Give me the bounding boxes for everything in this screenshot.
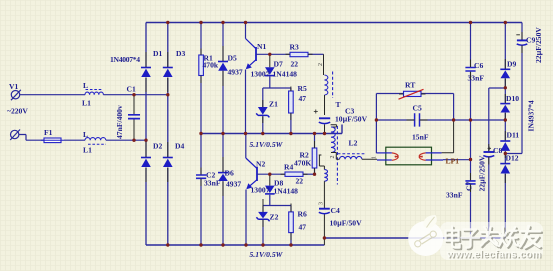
svg-text:4937: 4937 (226, 180, 241, 189)
junction top rail x=245.5 (244, 21, 247, 24)
junction mid rail x=245.5 (244, 132, 247, 135)
junction D11/D12 C9 tap (504, 152, 507, 155)
junction lamp return at C6 line (469, 158, 472, 161)
wire lamp lower-right to C6 line (443, 159, 471, 161)
junction AC bottom C1 tap (132, 139, 135, 142)
svg-text:D10: D10 (506, 94, 519, 103)
core of T (upper dashes) (332, 72, 334, 99)
wire R1 leg x=201 (R1 + C2 string) (200, 23, 202, 246)
junction N2 base / D8 (268, 173, 271, 176)
svg-text:13007: 13007 (251, 186, 270, 195)
svg-text:15nF: 15nF (412, 133, 429, 142)
svg-text:1N4148: 1N4148 (274, 187, 299, 196)
svg-text:L: L (83, 81, 88, 90)
svg-text:5.1V/0.5W: 5.1V/0.5W (250, 250, 284, 259)
wire L1a to bridge (103, 94, 167, 96)
wire bridge right leg x=167.8 (167, 23, 169, 246)
svg-text:2: 2 (318, 63, 324, 66)
junction mid rail R2 (313, 132, 316, 135)
wire bridge left leg x=146 (145, 23, 147, 246)
svg-text:F1: F1 (44, 128, 53, 137)
svg-text:L1: L1 (82, 99, 91, 108)
svg-text:D4: D4 (175, 142, 184, 151)
wire winding A to C3 (324, 95, 326, 115)
svg-text:C6: C6 (474, 61, 483, 70)
wire D9-D12 leg x=505.3 (504, 23, 506, 239)
svg-text:RT: RT (405, 81, 415, 90)
junction bottom rail Z2 (261, 243, 264, 246)
junction bottom rail x=223 (221, 243, 224, 246)
resistor R4 (285, 172, 303, 176)
terminal (AC neutral) (11, 130, 19, 138)
wire C8 leg x=488.8 (488, 88, 490, 238)
watermark logo circle (408, 221, 443, 256)
junction top rail x=167.8 (166, 21, 169, 24)
svg-text:C5: C5 (413, 104, 422, 113)
component pin leads (black overlay) (146, 32, 522, 240)
watermark logo node circles (415, 241, 421, 247)
svg-text:Z2: Z2 (270, 213, 279, 222)
svg-text:10μF/50V: 10μF/50V (335, 115, 368, 124)
svg-text:N2: N2 (256, 160, 265, 169)
svg-text:4937: 4937 (228, 68, 243, 77)
wire R4 to R2 junction (303, 173, 315, 175)
svg-text:C8: C8 (493, 146, 502, 155)
wire L1b to bridge (106, 139, 146, 141)
fuse F1 (44, 138, 61, 143)
junction AC top at bridge (166, 93, 169, 96)
wire winding C to C4 (323, 181, 325, 208)
lamp LP1 right filament (419, 153, 425, 160)
wire top rail (146, 22, 522, 24)
capacitor C5 (415, 113, 420, 126)
diode D9 (500, 68, 510, 70)
svg-text:47: 47 (299, 223, 307, 232)
svg-text:L: L (83, 130, 88, 139)
svg-text:47nF/400v: 47nF/400v (115, 105, 124, 139)
lamp LP1 tube outline (386, 147, 432, 165)
junction N1 base / D7 (268, 53, 271, 56)
diode D5 (218, 61, 228, 63)
wire D5/D6 leg x=223 (222, 23, 224, 246)
terminal V1 (AC live) (11, 91, 19, 99)
junction C5 row at C6 line (469, 118, 472, 121)
junction mid rail Z1 (261, 132, 264, 135)
svg-text:1N4007*4: 1N4007*4 (110, 55, 140, 64)
svg-text:13007: 13007 (251, 70, 270, 79)
svg-text:R4: R4 (284, 163, 293, 172)
svg-text:C1: C1 (127, 85, 136, 94)
wire F1 to L1b (64, 139, 85, 141)
lamp pin lower-right (426, 159, 443, 161)
svg-text:5.1V/0.5W: 5.1V/0.5W (250, 140, 284, 149)
wire C8 top to D9/D10 junction (489, 87, 506, 89)
diode D4 (163, 157, 173, 159)
transformer T winding B (primary) (331, 127, 335, 153)
junction C5 row left (375, 118, 378, 121)
wire lamp upper-left up to RT loop (375, 94, 377, 154)
svg-text:47: 47 (299, 94, 307, 103)
svg-text:R6: R6 (298, 210, 307, 219)
junction AC top C1 tap (132, 93, 135, 96)
svg-text:L1: L1 (83, 146, 92, 155)
wire V1 to L1a (20, 94, 85, 96)
svg-text:D11: D11 (507, 131, 520, 140)
watermark text 电子发烧友 (drawn strokes, white with gray shadow) (447, 228, 541, 250)
lamp pin upper-right (426, 152, 442, 154)
watermark logo leaf (423, 215, 436, 228)
watermark logo link bar (421, 236, 431, 242)
junction C5 row at D10/D11 (504, 118, 507, 121)
junction R4/R2 (313, 173, 316, 176)
svg-text:22: 22 (296, 177, 304, 186)
diode D8 string (N2 base clamp) (269, 174, 271, 185)
inductor L1 top winding (85, 92, 103, 95)
capacitor C8 (polarized) (484, 151, 495, 153)
svg-text:C7: C7 (465, 182, 474, 191)
junction bottom-right rail C4 (323, 236, 326, 239)
junction AC bottom at bridge (144, 139, 147, 142)
wire lamp upper-right to RT loop (442, 120, 454, 153)
diode D12 (500, 163, 510, 165)
wire C9 leg x=522 (505, 23, 522, 154)
junction mid rail C3 (323, 132, 326, 135)
junction D9/D10 C8 tap (504, 86, 507, 89)
diode D6 (218, 172, 228, 174)
wire N2 base to R4 (257, 173, 285, 175)
capacitor C2 (196, 175, 206, 178)
resistor R5 (290, 88, 292, 134)
svg-text:L2: L2 (349, 139, 358, 148)
zener Z1 (262, 88, 264, 107)
svg-text:D1: D1 (153, 49, 162, 58)
capacitor C7 (465, 181, 475, 184)
diode D7 string (N1 base clamp) (269, 54, 271, 67)
wire zigzag winding C top (319, 155, 325, 170)
svg-text:D2: D2 (153, 142, 162, 151)
transformer T winding A (N1 drive) (325, 75, 328, 95)
wire R3 to T winding A (308, 53, 324, 55)
inductor L2 (338, 153, 365, 155)
svg-text:D12: D12 (506, 154, 519, 163)
capacitor C3 (polarized) (319, 117, 330, 119)
svg-text:T: T (336, 100, 341, 109)
junction mid rail x=201 (199, 132, 202, 135)
svg-text:D7: D7 (274, 60, 283, 69)
resistor R3 (290, 52, 308, 56)
svg-text:10μF/50V: 10μF/50V (330, 219, 363, 228)
svg-text:D6: D6 (225, 169, 234, 178)
capacitor C9 (polarized) (517, 39, 527, 41)
inductor L1 bottom winding (85, 138, 106, 141)
wire C6/C7 leg x=470.5 (470, 23, 472, 239)
svg-text:3: 3 (319, 202, 325, 205)
svg-text:D9: D9 (507, 60, 516, 69)
svg-text:R5: R5 (298, 84, 307, 93)
svg-text:IN4937*4: IN4937*4 (527, 100, 536, 131)
transistor N2 (13007 NPN) (245, 134, 247, 159)
svg-text:22μF/250V: 22μF/250V (478, 155, 487, 191)
resistor R1 (199, 55, 204, 76)
wire terminal to F1 (19, 135, 44, 141)
junction mid rail R5 (289, 132, 292, 135)
svg-text:D5: D5 (228, 54, 237, 63)
junction top rail x=223 (221, 21, 224, 24)
svg-text:Z1: Z1 (269, 100, 278, 109)
svg-text:~220V: ~220V (7, 107, 28, 116)
svg-text:www.elecfans.com: www.elecfans.com (446, 249, 541, 260)
svg-text:470K: 470K (294, 159, 311, 168)
watermark glow band (440, 222, 543, 260)
wire C5 row (376, 119, 505, 121)
wire C3 bottom to winding B top (331, 125, 337, 127)
zener Z2 (262, 206, 264, 212)
wire bottom-left rail (146, 244, 324, 246)
svg-text:V1: V1 (9, 82, 18, 91)
junction bottom rail x=167.8 (166, 243, 169, 246)
core of T (lower dashes) (336, 126, 338, 185)
capacitor C4 (polarized) (319, 208, 330, 210)
junction top rail x=201 (199, 21, 202, 24)
svg-text:R3: R3 (290, 43, 299, 52)
capacitor C1 (133, 95, 135, 141)
transistor N1 (13007 NPN) (245, 23, 247, 39)
lamp pin lower-left (377, 159, 392, 161)
junction top rail x=505.3 (504, 21, 507, 24)
wire N1 base to R3 (256, 53, 290, 55)
diode D3 (163, 67, 173, 69)
svg-text:C4: C4 (331, 206, 340, 215)
svg-text:22: 22 (291, 60, 299, 69)
svg-text:33nF: 33nF (446, 191, 463, 200)
lamp pin upper-left (376, 152, 391, 154)
transformer T winding C (N2 drive) (324, 170, 327, 182)
svg-text:1N4148: 1N4148 (273, 70, 298, 79)
resistor R2 (314, 134, 316, 175)
svg-text:1: 1 (372, 156, 378, 159)
svg-text:D3: D3 (176, 49, 185, 58)
svg-text:2: 2 (330, 156, 336, 159)
diode D1 (141, 67, 151, 69)
lamp LP1 left filament (392, 153, 398, 160)
junction mid rail x=223 (221, 132, 224, 135)
junction C5 row at RT loop right (452, 118, 455, 121)
diode D2 (141, 157, 151, 159)
diode D10 (500, 103, 510, 105)
diode D11 (500, 140, 510, 142)
junction bottom rail R6 (289, 243, 292, 246)
svg-text:LP1: LP1 (446, 157, 460, 166)
capacitor C6 (465, 68, 475, 72)
junction bottom rail N2 emitter (244, 243, 247, 246)
resistor R6 (290, 206, 292, 246)
thermistor RT (404, 91, 422, 96)
wire RT loop top (376, 94, 453, 121)
junction top rail x=470.5 (469, 21, 472, 24)
wire bottom-right rail (324, 237, 505, 239)
junction bottom rail x=201 (199, 243, 202, 246)
svg-text:22μF/250V: 22μF/250V (534, 27, 543, 63)
wire winding B bottom to L2 (331, 153, 336, 160)
wire mid rail (half-bridge midpoint) (201, 125, 342, 134)
svg-text:470k: 470k (203, 61, 219, 70)
svg-text:N1: N1 (257, 42, 266, 51)
svg-text:33nF: 33nF (204, 179, 221, 188)
